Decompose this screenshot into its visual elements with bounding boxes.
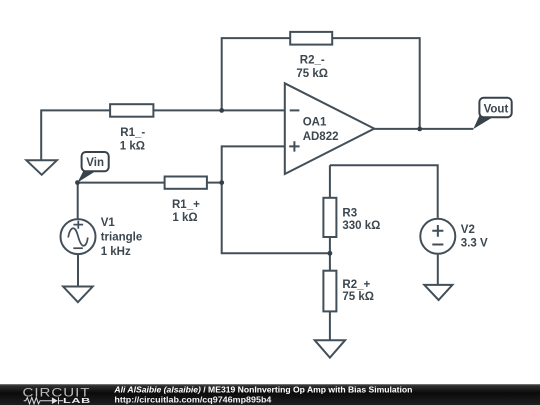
svg-text:R1_+: R1_+ bbox=[172, 199, 200, 211]
svg-text:75 kΩ: 75 kΩ bbox=[342, 291, 374, 303]
svg-text:V2: V2 bbox=[461, 224, 475, 236]
svg-text:330 kΩ: 330 kΩ bbox=[342, 220, 380, 232]
svg-text:AD822: AD822 bbox=[303, 131, 339, 143]
svg-text:Vin: Vin bbox=[86, 157, 104, 169]
svg-text:Ali AlSaibie (alsaibie) / ME31: Ali AlSaibie (alsaibie) / ME319 NonInver… bbox=[113, 385, 412, 394]
svg-text:R2_+: R2_+ bbox=[342, 279, 370, 291]
svg-text:R1_-: R1_- bbox=[120, 127, 145, 139]
svg-text:http://circuitlab.com/cq9746mp: http://circuitlab.com/cq9746mp895b4 bbox=[114, 395, 271, 404]
svg-text:triangle: triangle bbox=[101, 232, 143, 244]
svg-text:1 kHz: 1 kHz bbox=[101, 246, 131, 258]
svg-text:V1: V1 bbox=[101, 217, 116, 229]
svg-text:1 kΩ: 1 kΩ bbox=[120, 141, 145, 153]
svg-text:OA1: OA1 bbox=[303, 116, 327, 128]
svg-text:R3: R3 bbox=[342, 208, 357, 220]
svg-text:3.3 V: 3.3 V bbox=[461, 237, 488, 249]
svg-text:75 kΩ: 75 kΩ bbox=[296, 68, 328, 80]
svg-text:1 kΩ: 1 kΩ bbox=[172, 212, 197, 224]
svg-text:Vout: Vout bbox=[484, 103, 509, 115]
svg-text:LAB: LAB bbox=[63, 396, 91, 405]
svg-text:R2_-: R2_- bbox=[300, 54, 325, 66]
